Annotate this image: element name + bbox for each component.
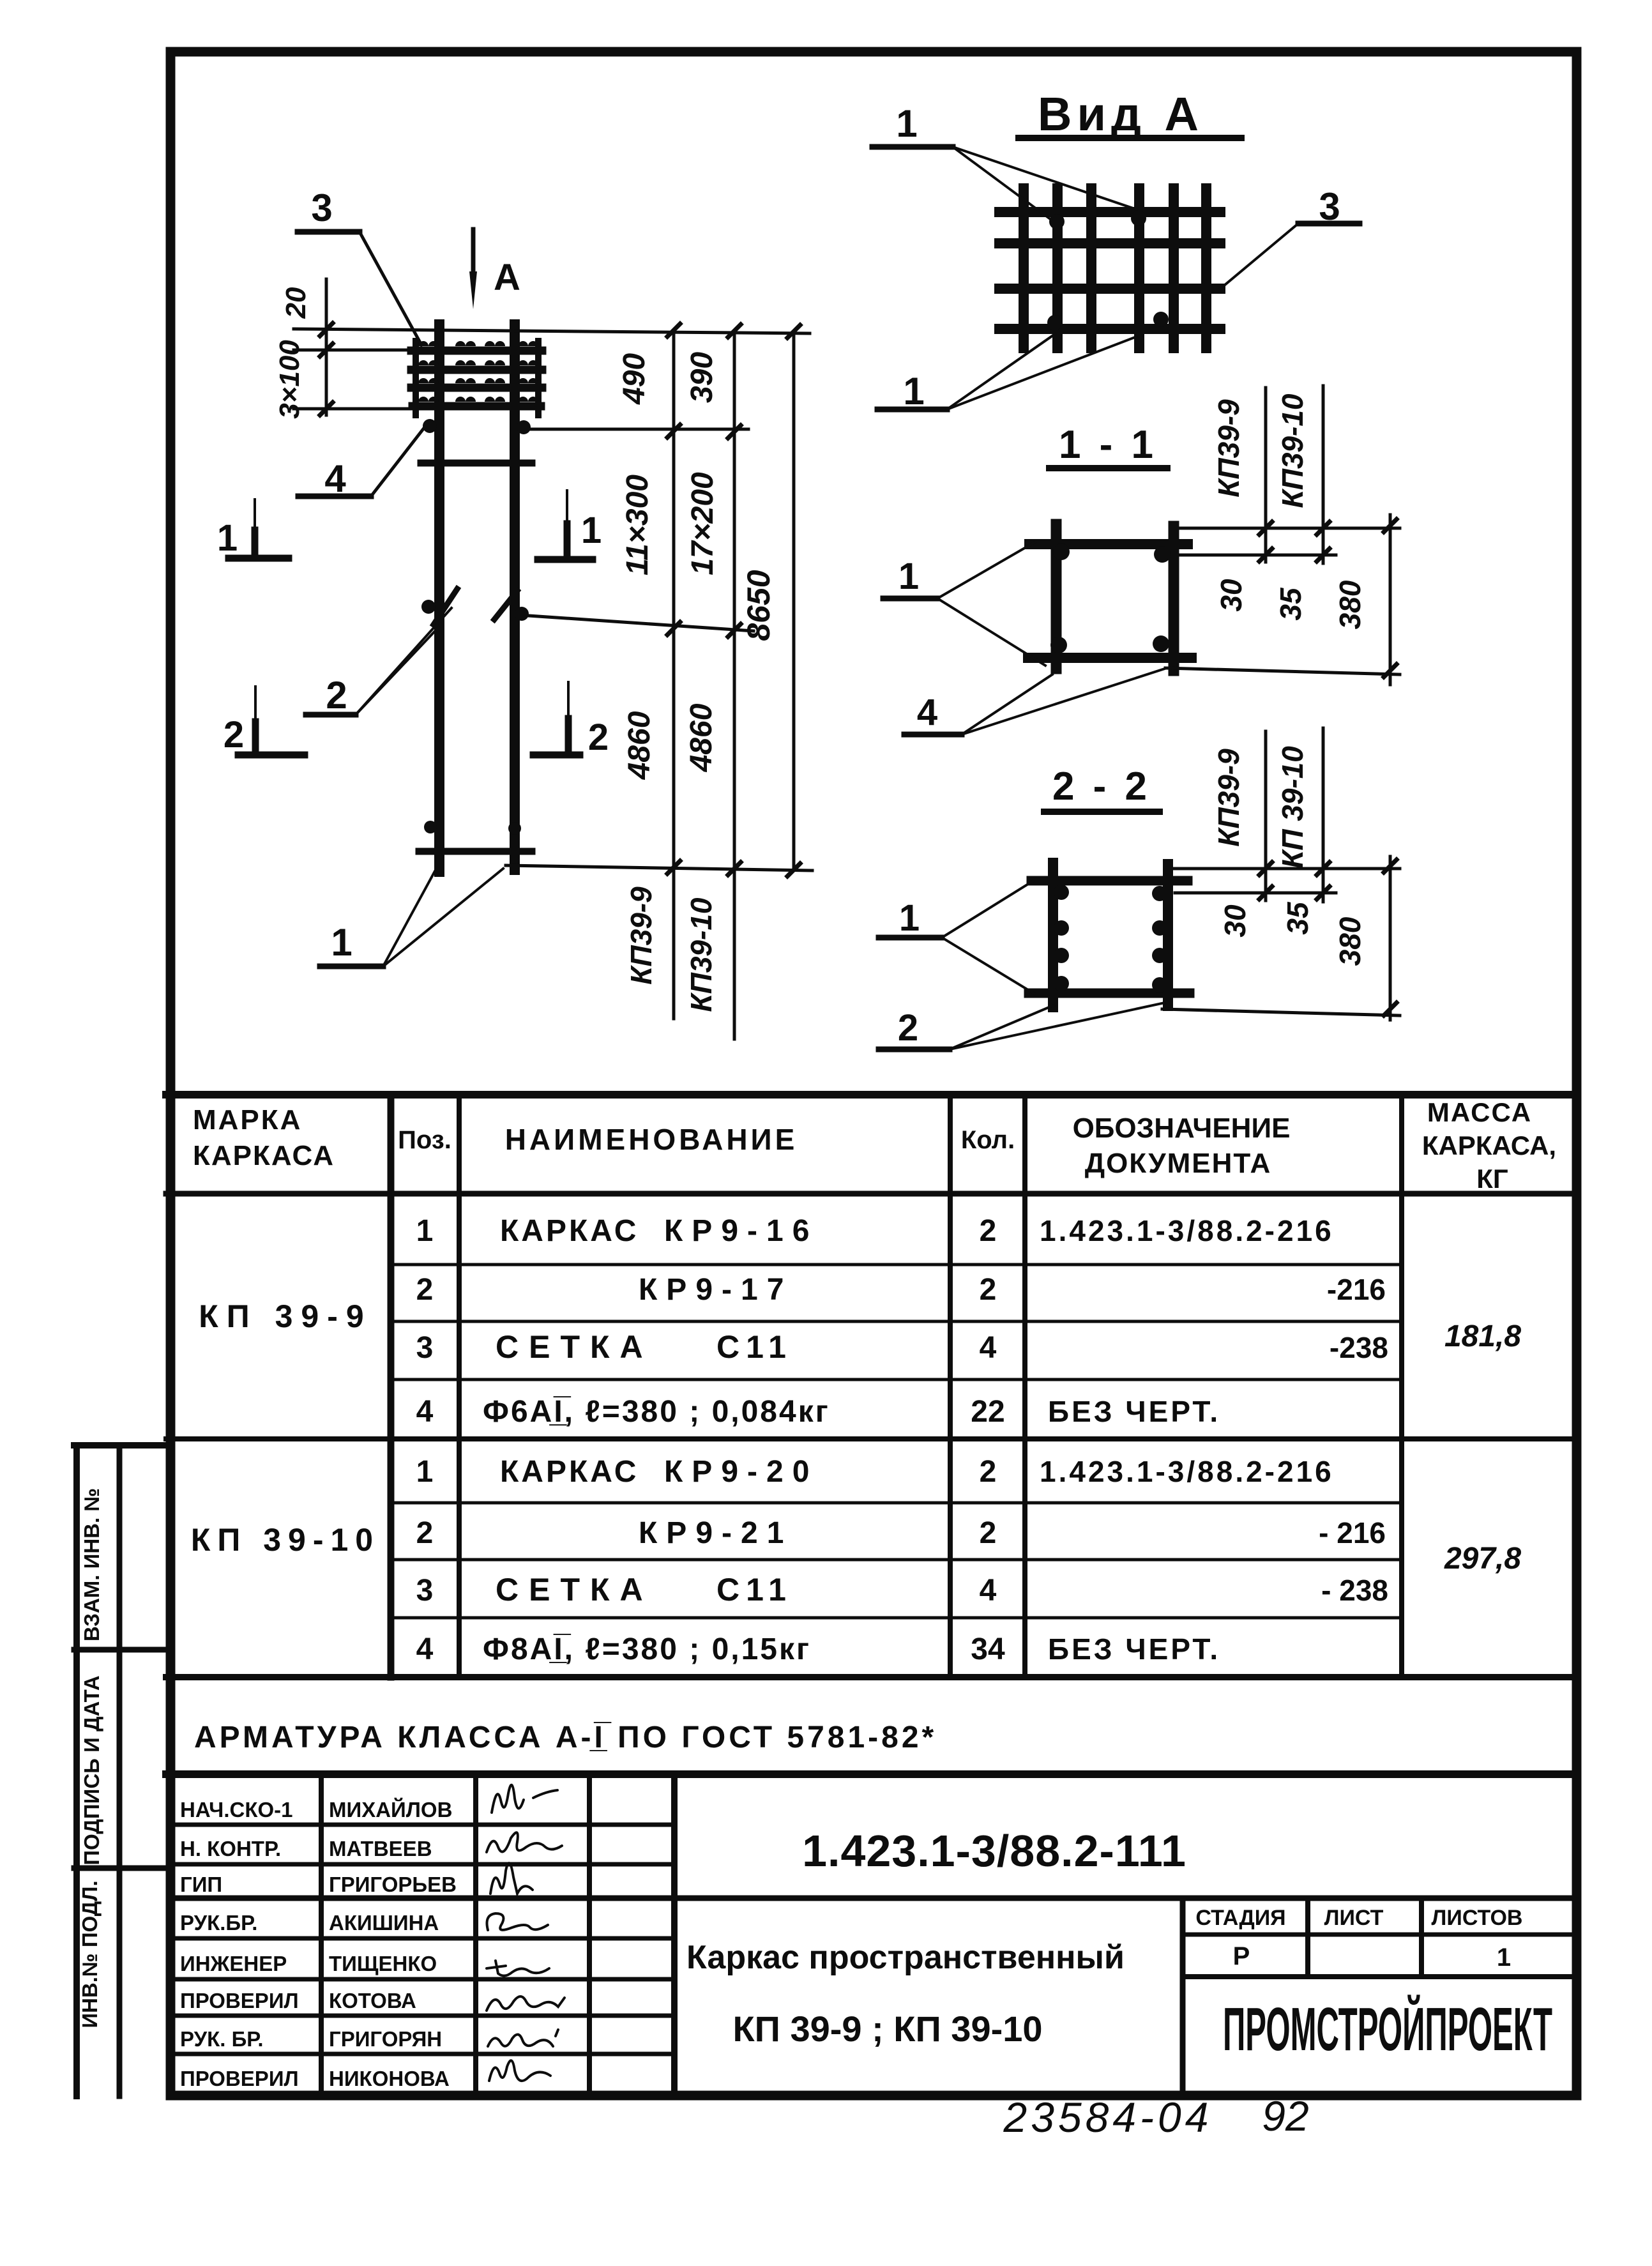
left margin stamp column outer line	[73, 1445, 80, 2096]
view A mesh horizontal wire 2	[999, 238, 1220, 248]
section mark 2-2 right: flag	[533, 752, 580, 759]
svg-text:ОБОЗНАЧЕНИЕ: ОБОЗНАЧЕНИЕ	[1073, 1113, 1291, 1144]
svg-text:4860: 4860	[685, 703, 718, 772]
title block column line: name|signature	[473, 1774, 478, 2096]
view A weld dot 1	[1049, 214, 1065, 229]
svg-text:КП 39-9 ; КП 39-10: КП 39-9 ; КП 39-10	[732, 2009, 1042, 2049]
svg-text:КП39-10: КП39-10	[1276, 393, 1309, 508]
svg-text:2: 2	[980, 1214, 997, 1248]
svg-text:МАТВЕЕВ: МАТВЕЕВ	[329, 1837, 432, 1860]
table column line: name|qty	[948, 1095, 953, 1677]
svg-text:ЛИСТ: ЛИСТ	[1324, 1906, 1384, 1930]
section 2-2 ext line bottom	[1162, 1009, 1400, 1015]
svg-text:КП39-9: КП39-9	[1212, 399, 1245, 498]
svg-text:ДОКУМЕНТА: ДОКУМЕНТА	[1085, 1148, 1272, 1179]
svg-text:ГРИГОРЯН: ГРИГОРЯН	[329, 2027, 442, 2051]
title block row line 7	[171, 2052, 674, 2057]
elevation: mesh cross-wire bumps	[418, 341, 538, 402]
view A weld dot 2	[1131, 211, 1146, 226]
svg-text:АКИШИНА: АКИШИНА	[329, 1911, 439, 1935]
svg-text:СЕТКА: СЕТКА	[496, 1572, 653, 1608]
leader for item 4 underline	[298, 494, 371, 499]
section 1-1 ext line bottom	[1165, 668, 1400, 674]
svg-text:БЕЗ ЧЕРТ.: БЕЗ ЧЕРТ.	[1048, 1632, 1220, 1666]
svg-text:34: 34	[971, 1632, 1005, 1666]
ext line 3x100 bottom (y640)	[294, 407, 543, 411]
svg-text:4860: 4860	[623, 711, 656, 780]
svg-text:ЛИСТОВ: ЛИСТОВ	[1432, 1906, 1523, 1930]
svg-text:2: 2	[980, 1455, 997, 1489]
svg-text:17×200: 17×200	[686, 472, 720, 575]
svg-text:35: 35	[1274, 587, 1307, 621]
leader for item 2 underline	[306, 712, 356, 718]
svg-text:КАРКАСА: КАРКАСА	[193, 1140, 335, 1171]
svg-text:КАРКАС: КАРКАС	[500, 1455, 639, 1489]
view arrow A stem	[471, 229, 476, 284]
signature Akishina	[487, 1913, 549, 1930]
signature Grigoryev	[490, 1863, 533, 1894]
svg-text:3: 3	[1319, 185, 1340, 228]
leader for item 3 underline	[298, 229, 360, 235]
view A mesh vertical wire 2	[1052, 188, 1063, 348]
left margin stamp row line 1	[74, 1647, 171, 1653]
svg-text:КАРКАСА,: КАРКАСА,	[1422, 1130, 1556, 1160]
svg-text:Вид А: Вид А	[1038, 87, 1204, 141]
svg-text:35: 35	[1281, 901, 1314, 935]
svg-text:КП39-9: КП39-9	[1212, 749, 1245, 847]
title block column line: left section | right section	[671, 1774, 678, 2096]
svg-text:30: 30	[1215, 579, 1248, 612]
leader for item 2 line a	[356, 608, 451, 715]
section 1-1 dim line 380	[1389, 515, 1392, 685]
svg-text:2: 2	[980, 1516, 997, 1550]
svg-text:-238: -238	[1330, 1331, 1388, 1364]
svg-text:3×100: 3×100	[274, 340, 305, 419]
stage table header underline	[1183, 1933, 1577, 1937]
left dim line (20 / 3x100)	[325, 279, 328, 415]
title block row line 2	[171, 1862, 674, 1867]
svg-text:380: 380	[1333, 916, 1367, 966]
svg-text:МИХАЙЛОВ: МИХАЙЛОВ	[329, 1797, 452, 1821]
svg-text:2: 2	[980, 1273, 997, 1307]
signature Tishchenko	[487, 1961, 549, 1976]
section 1-1 corner rebar dots	[1053, 544, 1070, 560]
svg-text:92: 92	[1262, 2092, 1308, 2140]
title block column line: signature|date	[587, 1774, 592, 2096]
section 1-1 hoop bottom bar	[1028, 653, 1192, 663]
svg-text:4: 4	[416, 1632, 434, 1666]
svg-text:1: 1	[217, 517, 238, 559]
left margin stamp row line 2	[74, 1866, 171, 1871]
svg-text:СТАДИЯ: СТАДИЯ	[1195, 1906, 1285, 1930]
stage table column line 1	[1305, 1898, 1310, 1977]
svg-text:КП39-9: КП39-9	[625, 886, 658, 985]
elevation: lower spacer dot right	[508, 822, 521, 835]
elevation: mesh left edge wire	[413, 341, 419, 415]
section mark 1-1 right: flag	[538, 556, 593, 563]
tick marks dim line 3	[787, 325, 800, 876]
elevation: mesh wire 4	[411, 402, 542, 408]
svg-text:БЕЗ ЧЕРТ.: БЕЗ ЧЕРТ.	[1048, 1395, 1220, 1428]
leader for item 1 line b	[383, 869, 503, 966]
svg-text:РУК. БР.: РУК. БР.	[180, 2027, 264, 2051]
svg-text:Каркас пространственный: Каркас пространственный	[686, 1939, 1125, 1976]
section 2-2 hoop bottom bar	[1029, 989, 1190, 998]
section 2-2 label 1 underline	[879, 935, 942, 941]
elevation: hoop tie lower	[419, 848, 532, 855]
section 2-2 title underline	[1044, 809, 1160, 815]
svg-text:1: 1	[416, 1455, 434, 1489]
leader for item 4	[371, 425, 427, 496]
leader for item 2 line b	[356, 627, 439, 715]
svg-text:КП 39-10: КП 39-10	[1276, 746, 1309, 869]
ext line 20 (y548)	[294, 349, 434, 352]
svg-text:АРМАТУРА КЛАССА А-I̲̅ ПО ГОСТ: АРМАТУРА КЛАССА А-I̲̅ ПО ГОСТ 5781-82*	[194, 1721, 937, 1754]
section 2-2 mesh rebar dots right	[1152, 886, 1167, 901]
table row line r6	[391, 1558, 1402, 1562]
svg-text:ИНЖЕНЕР: ИНЖЕНЕР	[180, 1952, 287, 1975]
view A weld dot 4	[1153, 312, 1169, 327]
section 1-1 label 4 leader b	[962, 668, 1167, 734]
view A mesh vertical wire 3	[1086, 188, 1096, 348]
elevation: mesh wire 2	[411, 366, 542, 374]
svg-text:ГИП: ГИП	[180, 1873, 222, 1896]
section 1-1 dim ticks	[1259, 519, 1397, 677]
table top border	[166, 1091, 1577, 1099]
section 2-2 dim line 30 / KP39-9 label line	[1264, 731, 1268, 901]
svg-text:А: А	[494, 257, 520, 298]
svg-text:-216: -216	[1327, 1273, 1386, 1306]
signature Nikonova	[489, 2060, 550, 2081]
svg-text:ВЗАМ. ИНВ. №: ВЗАМ. ИНВ. №	[80, 1488, 103, 1641]
view A mesh vertical wire 4	[1134, 188, 1144, 348]
ext line bottom (y1356)	[506, 865, 812, 871]
table row line r1	[391, 1263, 1402, 1266]
svg-text:1 - 1: 1 - 1	[1059, 423, 1157, 467]
svg-text:МАРКА: МАРКА	[193, 1104, 302, 1136]
section 2-2 label 1 leader b	[942, 938, 1034, 994]
view arrow A head	[469, 271, 477, 309]
ext line below mesh (y672)	[525, 428, 748, 431]
section 2-2 label 2 leader b	[950, 1003, 1165, 1049]
ext line mid (y964-990)	[529, 616, 754, 631]
elevation: splice dot right	[515, 607, 529, 621]
section 2-2 dim line 380	[1389, 856, 1392, 1020]
leader for item 1 line a	[383, 871, 435, 966]
svg-text:КР9-16: КР9-16	[664, 1214, 818, 1248]
tick marks left dims	[320, 323, 333, 415]
elevation: right longitudinal bar	[510, 324, 520, 870]
svg-text:4: 4	[917, 692, 937, 733]
elevation: lower spacer dot left	[424, 821, 437, 833]
svg-text:1: 1	[896, 102, 917, 145]
svg-text:490: 490	[618, 353, 651, 405]
view A label 1 bottom leader a	[947, 334, 1055, 409]
elevation: mesh right edge wire	[535, 341, 542, 415]
svg-text:- 216: - 216	[1319, 1516, 1386, 1549]
dim line 1 (KP39-9 column)	[672, 330, 676, 1019]
svg-text:3: 3	[416, 1574, 434, 1608]
elevation: splice mark left bar	[434, 589, 457, 625]
title block column line: title cell | stage table	[1180, 1898, 1186, 2096]
signature Mikhailov	[492, 1785, 557, 1813]
view A title underline	[1019, 135, 1241, 141]
svg-text:2: 2	[326, 674, 347, 717]
svg-text:ГРИГОРЬЕВ: ГРИГОРЬЕВ	[329, 1873, 457, 1896]
svg-text:ПРОВЕРИЛ: ПРОВЕРИЛ	[180, 1989, 299, 2012]
svg-text:390: 390	[685, 352, 719, 403]
table column line: doc|mass	[1399, 1095, 1404, 1677]
table row line r5	[391, 1502, 1402, 1505]
section 2-2 hoop left bar	[1048, 863, 1058, 1007]
svg-text:23584-04: 23584-04	[1003, 2094, 1213, 2141]
section 1-1 label 1 underline	[883, 596, 937, 602]
view A mesh horizontal wire 3	[999, 284, 1220, 294]
stage table bottom line	[1183, 1974, 1577, 1979]
svg-text:1: 1	[416, 1214, 434, 1248]
svg-text:4: 4	[416, 1395, 434, 1429]
svg-text:Кол.: Кол.	[961, 1126, 1015, 1154]
svg-text:1.423.1-3/88.2-111: 1.423.1-3/88.2-111	[802, 1826, 1186, 1876]
svg-text:2: 2	[416, 1516, 434, 1550]
section mark 1-1 left: flag	[229, 555, 289, 562]
section mark 2-2 left: flag	[238, 752, 305, 759]
elevation: spacer rod dot left (item 4)	[423, 419, 437, 433]
table row line r7	[391, 1616, 1402, 1620]
svg-text:4: 4	[324, 457, 346, 500]
section 2-2 ext line second	[1175, 892, 1336, 895]
view A mesh vertical wire 5	[1169, 188, 1179, 348]
svg-text:Н. КОНТР.: Н. КОНТР.	[180, 1837, 281, 1860]
border frame	[171, 52, 1577, 2095]
dim line 3 (8650)	[792, 331, 796, 870]
svg-text:Поз.: Поз.	[398, 1126, 451, 1154]
svg-text:Ф8АI̲̅, ℓ=380 ; 0,15кг: Ф8АI̲̅, ℓ=380 ; 0,15кг	[483, 1632, 811, 1666]
svg-text:КП 39-9: КП 39-9	[199, 1298, 372, 1334]
svg-text:2: 2	[898, 1007, 918, 1049]
signature Matveev	[487, 1832, 562, 1852]
svg-text:ПОДПИСЬ И ДАТА: ПОДПИСЬ И ДАТА	[80, 1675, 103, 1865]
view A label 1 top underline	[872, 144, 953, 150]
section 1-1 dim line 35 / KP39-10 label line	[1322, 386, 1325, 563]
view A label 1 top leader b	[953, 147, 1137, 209]
elevation: mesh wire 1	[411, 347, 542, 355]
section 2-2 label 2 leader a	[950, 1005, 1054, 1049]
tick marks dim line 1	[667, 324, 680, 874]
section 1-1 label 1 leader a	[937, 542, 1036, 598]
view A mesh horizontal wire 4	[999, 324, 1220, 334]
svg-text:1: 1	[899, 897, 920, 939]
svg-text:НИКОНОВА: НИКОНОВА	[329, 2067, 450, 2090]
section 1-1 hoop top bar	[1029, 539, 1188, 549]
section 2-2 dim ticks	[1259, 860, 1397, 1015]
title block row line 3 (spans to right edge)	[171, 1896, 1577, 1901]
table group divider line	[166, 1436, 1577, 1441]
svg-text:Ф6АI̲̅, ℓ=380 ; 0,084кг: Ф6АI̲̅, ℓ=380 ; 0,084кг	[483, 1395, 830, 1429]
svg-text:2: 2	[416, 1273, 434, 1307]
section 2-2 hoop top bar	[1031, 876, 1188, 886]
svg-text:4: 4	[980, 1331, 997, 1365]
svg-text:КР9-20: КР9-20	[664, 1455, 818, 1489]
elevation: mesh wire 3	[411, 384, 542, 392]
svg-text:- 238: - 238	[1321, 1574, 1388, 1607]
svg-text:КП 39-10: КП 39-10	[191, 1522, 380, 1558]
svg-text:380: 380	[1333, 580, 1367, 629]
section 1-1 hoop right bar	[1169, 526, 1179, 671]
dim line 2 (KP39-10 column)	[733, 331, 736, 1039]
view A weld dot 3	[1047, 315, 1063, 330]
left margin stamp column divider	[117, 1445, 123, 2096]
leader for item 3	[360, 232, 421, 345]
svg-text:1.423.1-3/88.2-216: 1.423.1-3/88.2-216	[1040, 1214, 1334, 1247]
svg-text:1: 1	[898, 556, 919, 597]
svg-text:3: 3	[311, 186, 332, 229]
ext line top (y516)	[294, 329, 810, 333]
svg-text:11×300: 11×300	[621, 475, 655, 575]
svg-text:Р: Р	[1233, 1942, 1250, 1970]
section 2-2 label 1 leader a	[942, 880, 1034, 938]
svg-text:СЕТКА: СЕТКА	[496, 1329, 653, 1365]
section 1-1 title underline	[1049, 465, 1167, 471]
section 2-2 label 2 underline	[879, 1047, 950, 1053]
svg-text:ИНВ.№ ПОДЛ.: ИНВ.№ ПОДЛ.	[78, 1880, 102, 2028]
title block row line 6	[171, 2014, 674, 2018]
section 1-1 dim line 30 / KP39-9 label line	[1264, 388, 1268, 562]
view A label 1 bottom leader b	[947, 337, 1137, 409]
table column line: poz|name	[457, 1095, 462, 1677]
view A label 3 leader	[1220, 224, 1298, 289]
svg-text:30: 30	[1218, 904, 1252, 938]
title block row line 1	[171, 1823, 674, 1827]
view A label 3 underline	[1298, 221, 1360, 227]
svg-text:3: 3	[416, 1331, 434, 1365]
svg-text:8650: 8650	[741, 570, 777, 641]
signatures	[487, 1785, 565, 2081]
svg-text:С11: С11	[716, 1572, 792, 1608]
svg-text:ПРОМСТРОЙПРОЕКТ: ПРОМСТРОЙПРОЕКТ	[1223, 1994, 1552, 2064]
svg-text:4: 4	[980, 1574, 997, 1608]
view A label 1 bottom underline	[877, 407, 947, 413]
section 1-1 label 4 leader a	[962, 674, 1052, 734]
svg-text:1: 1	[331, 921, 352, 964]
signature Kotova	[487, 1996, 565, 2011]
view A mesh horizontal wire 1	[999, 207, 1220, 217]
section 2-2 dim line 35 / KP39-10 label line	[1322, 728, 1325, 902]
tick marks dim line 2	[728, 324, 741, 875]
table bottom border	[166, 1674, 1577, 1680]
svg-text:КОТОВА: КОТОВА	[329, 1989, 416, 2012]
table row line r2	[391, 1320, 1402, 1323]
leader for item 1 underline (elevation bottom)	[320, 964, 383, 970]
section 2-2 mesh rebar dots left	[1054, 885, 1069, 900]
svg-text:КР9-21: КР9-21	[639, 1516, 792, 1550]
svg-text:КР9-17: КР9-17	[639, 1273, 792, 1307]
section 2-2 ext line top	[1170, 867, 1400, 871]
section 1-1 label 4 underline	[904, 732, 962, 738]
svg-text:ТИЩЕНКО: ТИЩЕНКО	[329, 1952, 437, 1975]
svg-text:МАССА: МАССА	[1427, 1097, 1532, 1127]
view A mesh vertical wire 6	[1201, 188, 1211, 348]
elevation: hoop tie upper	[421, 460, 532, 467]
section 1-1 hoop left bar	[1051, 524, 1062, 669]
title block row line 5	[171, 1977, 674, 1982]
view A mesh vertical wire 1	[1019, 188, 1029, 348]
svg-text:РУК.БР.: РУК.БР.	[180, 1911, 257, 1935]
svg-text:181,8: 181,8	[1444, 1319, 1521, 1353]
stage table column line 2	[1419, 1898, 1424, 1977]
svg-text:ПРОВЕРИЛ: ПРОВЕРИЛ	[180, 2067, 299, 2090]
table column line: qty|doc	[1022, 1095, 1027, 1677]
elevation: spacer rod dot right (item 4)	[517, 420, 531, 434]
svg-text:КП39-10: КП39-10	[685, 897, 718, 1012]
elevation: left longitudinal bar	[434, 324, 444, 872]
title block row line 4	[171, 1936, 674, 1941]
view A label 1 top leader a	[953, 147, 1051, 220]
section 1-1 ext line second	[1178, 554, 1336, 557]
svg-text:КАРКАС: КАРКАС	[500, 1214, 639, 1248]
title block column line: role|name	[319, 1774, 324, 2096]
svg-text:297,8: 297,8	[1444, 1542, 1521, 1576]
svg-text:22: 22	[971, 1395, 1004, 1429]
svg-text:КГ: КГ	[1476, 1164, 1508, 1194]
svg-text:1.423.1-3/88.2-216: 1.423.1-3/88.2-216	[1040, 1455, 1334, 1488]
svg-text:С11: С11	[716, 1329, 792, 1365]
section 2-2 hoop right bar	[1163, 864, 1173, 1006]
table column line: marka|poz	[388, 1095, 395, 1677]
signature Grigoryan	[488, 2030, 558, 2046]
svg-text:2: 2	[224, 714, 244, 756]
left margin stamp top line	[74, 1442, 171, 1449]
svg-text:20: 20	[280, 287, 312, 319]
svg-text:2 - 2: 2 - 2	[1052, 764, 1151, 809]
elevation: splice dot left	[421, 600, 436, 614]
section 1-1 label 1 leader b	[937, 598, 1045, 665]
svg-text:НАИМЕНОВАНИЕ: НАИМЕНОВАНИЕ	[505, 1123, 798, 1156]
elevation: splice mark right bar	[494, 591, 517, 620]
table header bottom line	[166, 1191, 1577, 1197]
svg-text:1: 1	[1497, 1943, 1511, 1972]
svg-text:1: 1	[903, 370, 924, 413]
svg-text:2: 2	[588, 717, 609, 758]
section 1-1 ext line top	[1172, 527, 1400, 530]
svg-text:НАЧ.СКО-1: НАЧ.СКО-1	[180, 1798, 293, 1821]
table row line r3	[391, 1378, 1402, 1381]
svg-text:1: 1	[581, 510, 602, 551]
note strip bottom line / title block top	[166, 1770, 1577, 1778]
